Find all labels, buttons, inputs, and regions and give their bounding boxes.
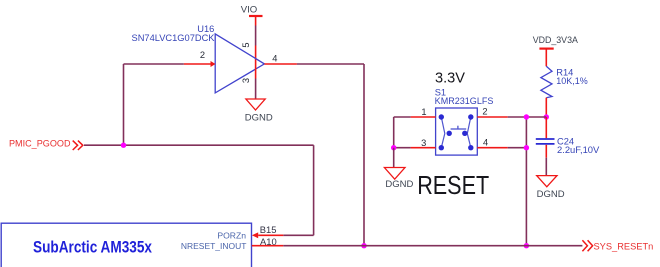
ground DGND under C24 (537, 176, 565, 201)
pin 3 stub S1 (411, 147, 436, 149)
svg-text:VDD_3V3A: VDD_3V3A (533, 35, 578, 45)
pin A10 stub (252, 245, 283, 247)
svg-text:2.2uF,10V: 2.2uF,10V (557, 145, 600, 155)
ground DGND under S1 (384, 168, 413, 191)
svg-text:2: 2 (482, 107, 487, 117)
junction S1 vertical / SYS_RESETn net (524, 243, 529, 248)
pin B15 stub (258, 234, 283, 236)
svg-text:SubArctic AM335x: SubArctic AM335x (33, 237, 152, 256)
power symbol VIO (241, 4, 263, 25)
svg-text:DGND: DGND (385, 179, 413, 190)
pin 2 input stub with arrow (184, 61, 216, 67)
svg-text:4: 4 (272, 54, 277, 64)
pin 4 stub S1 (477, 147, 507, 149)
wire pin 3 to ground (255, 79, 257, 99)
junction PMIC_PGOOD / input (121, 143, 126, 148)
pin PORZn arrow (252, 232, 258, 238)
svg-text:NRESET_INOUT: NRESET_INOUT (181, 241, 247, 251)
wire S1 pin2 to R14/C24 junction (508, 116, 547, 118)
off-page connector SYS_RESETn (582, 240, 653, 251)
svg-text:10K,1%: 10K,1% (556, 76, 587, 86)
wire S1 pin4 to vertical (508, 147, 527, 149)
svg-text:RESET: RESET (417, 172, 489, 200)
svg-text:KMR231GLFS: KMR231GLFS (435, 96, 494, 106)
pin 4 output stub (264, 63, 297, 65)
off-page connector PMIC_PGOOD (9, 139, 83, 150)
wire buffer input horizontal (124, 63, 184, 65)
wire U16 output vertical (363, 64, 365, 246)
svg-text:3.3V: 3.3V (435, 69, 465, 86)
svg-text:1: 1 (421, 107, 426, 117)
svg-text:3: 3 (241, 78, 251, 83)
pin 5 stub (255, 46, 257, 60)
svg-text:SN74LVC1G07DCK: SN74LVC1G07DCK (132, 33, 216, 43)
wire VIO to U16 pin 5 (255, 26, 257, 46)
capacitor C24 (536, 117, 600, 155)
wire S1 to ground (393, 148, 395, 168)
svg-text:DGND: DGND (245, 112, 273, 123)
svg-text:A10: A10 (260, 236, 277, 247)
wire PMIC_PGOOD down to PORZn (313, 145, 315, 235)
junction S1 left pins (391, 145, 396, 150)
switch S1 (436, 108, 478, 155)
wire R14 bottom (545, 98, 547, 117)
resistor R14 (541, 66, 588, 97)
junction R14 / C24 (544, 114, 549, 119)
wire C24 to ground (545, 145, 547, 176)
svg-text:VIO: VIO (241, 4, 258, 15)
junction S1 pin4 (524, 145, 529, 150)
svg-text:4: 4 (483, 137, 488, 147)
power symbol VDD_3V3A (533, 35, 578, 66)
svg-text:PMIC_PGOOD: PMIC_PGOOD (9, 139, 71, 149)
svg-text:5: 5 (241, 42, 251, 47)
ground DGND under U16 (245, 99, 273, 123)
junction S1 pin2 (524, 114, 529, 119)
svg-text:SYS_RESETn: SYS_RESETn (594, 241, 654, 251)
wire U16 output (297, 63, 364, 65)
wire buffer input vertical (123, 64, 125, 145)
wire S1 right vertical to SYS_RESETn net (525, 117, 527, 246)
wire to PORZn pin (283, 234, 313, 236)
op-amp buffer U16 (215, 34, 264, 93)
wire PMIC_PGOOD horizontal (84, 144, 314, 146)
svg-text:B15: B15 (260, 224, 277, 235)
svg-text:3: 3 (421, 138, 426, 148)
pin 2 stub S1 (477, 116, 507, 118)
IC SubArctic AM335x box (1, 223, 251, 267)
junction output / SYS_RESETn net (361, 243, 366, 248)
svg-text:PORZn: PORZn (217, 231, 246, 241)
svg-text:DGND: DGND (537, 189, 565, 200)
svg-text:2: 2 (200, 50, 205, 60)
pin 1 stub S1 (411, 116, 436, 118)
wire S1 pin1 to pin3 (394, 117, 411, 148)
wire SYS_RESETn net (283, 245, 582, 247)
pin 3 stub (255, 60, 257, 79)
